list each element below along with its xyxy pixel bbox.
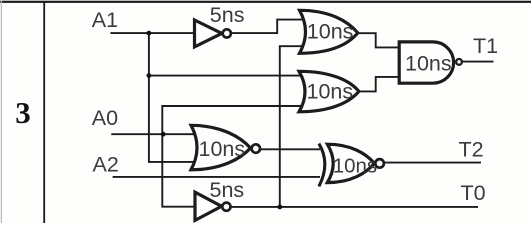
inverter U1 triangle <box>195 20 222 47</box>
bubble U2 <box>252 144 260 152</box>
inverter U3 triangle <box>195 192 222 220</box>
svg-text:T2: T2 <box>459 138 484 162</box>
bubble U3 <box>222 203 230 211</box>
svg-text:5ns: 5ns <box>210 3 245 27</box>
junction dot A1 to OR U5 <box>147 73 152 78</box>
XNOR gate U7 body <box>327 144 374 182</box>
svg-text:5ns: 5ns <box>210 178 245 202</box>
wire T0 branch up to OR U4 bottom input <box>280 46 305 207</box>
junction dot A0 <box>161 132 166 137</box>
svg-text:3: 3 <box>15 95 30 130</box>
NOR gate U2 body <box>191 125 251 170</box>
wire A0 input to NOR U2 top input <box>111 133 198 135</box>
svg-text:10ns: 10ns <box>333 155 377 178</box>
wire A1 branch down to NOR U2 bottom input <box>149 33 199 162</box>
bubble U1 <box>223 29 231 37</box>
wire U3 output T0 line <box>231 206 478 208</box>
bubble U7 <box>375 159 384 168</box>
wire T1 output <box>462 61 493 63</box>
wire T2 output <box>385 162 481 164</box>
wire A0 branch: up to OR U5 bottom input and down to inverter U3 <box>162 106 304 207</box>
wire U4 output to NAND U6 top input <box>358 33 400 47</box>
svg-text:10ns: 10ns <box>307 20 354 44</box>
svg-text:A0: A0 <box>92 106 118 130</box>
wire A2 to XNOR U7 bottom input <box>113 176 320 178</box>
svg-text:10ns: 10ns <box>405 52 452 76</box>
table top border <box>0 1 531 3</box>
svg-text:A2: A2 <box>93 153 119 177</box>
wire U5 output to NAND U6 bottom input <box>359 77 400 92</box>
svg-text:10ns: 10ns <box>199 137 246 161</box>
svg-text:T1: T1 <box>473 34 498 58</box>
OR gate U4 body <box>300 10 358 53</box>
XNOR gate U7 outer arc <box>319 144 325 187</box>
table left border <box>1 0 2 223</box>
wire A1 input to inverter U1 <box>110 32 194 34</box>
NAND gate U6 body <box>399 42 453 83</box>
svg-text:10ns: 10ns <box>307 80 354 104</box>
wire U2 output to XNOR U7 top input <box>261 148 320 150</box>
wire A1 branch to OR U5 top input <box>149 75 305 77</box>
svg-text:T0: T0 <box>461 181 486 205</box>
junction dot A1 <box>147 31 152 36</box>
junction dot T0 branch <box>277 205 282 210</box>
wire U1 output to OR U4 top input <box>232 20 305 33</box>
table column divider <box>43 2 45 224</box>
svg-text:A1: A1 <box>92 8 118 32</box>
OR gate U5 body <box>299 71 359 112</box>
bubble U6 <box>456 59 462 65</box>
